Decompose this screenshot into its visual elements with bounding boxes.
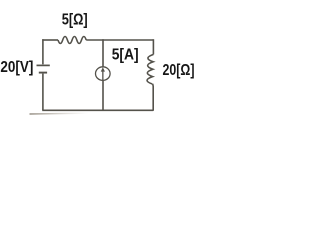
resistor R1 5[Ω] (top wave) bbox=[58, 37, 86, 44]
svg-text:20[V]: 20[V] bbox=[0, 59, 33, 76]
svg-text:5[Ω]: 5[Ω] bbox=[62, 12, 88, 29]
wire right lower bbox=[152, 84, 155, 111]
wire top-right segment bbox=[86, 39, 153, 41]
wire middle upper bbox=[102, 39, 104, 67]
current source I1 circle bbox=[96, 67, 111, 81]
wire bottom bbox=[42, 109, 153, 111]
wire left lower bbox=[42, 74, 44, 110]
svg-text:20[Ω]: 20[Ω] bbox=[163, 62, 195, 79]
wire right upper bbox=[152, 39, 154, 54]
voltage source V1 battery long plate bbox=[37, 64, 50, 66]
resistor R2 20[Ω] (right cusp wave) bbox=[147, 54, 153, 84]
current source I1 arrow (points up) bbox=[101, 67, 105, 80]
voltage source V1 battery short plate bbox=[39, 72, 47, 74]
wire middle lower bbox=[102, 81, 104, 110]
wire top-left segment bbox=[42, 39, 58, 41]
wire left upper (to battery) bbox=[42, 39, 44, 64]
svg-text:5[A]: 5[A] bbox=[112, 46, 139, 63]
